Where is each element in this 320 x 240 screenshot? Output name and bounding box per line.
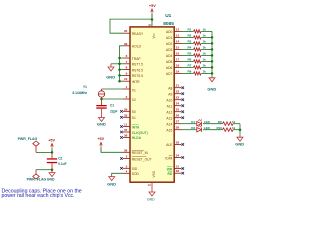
- svg-text:INTA: INTA: [132, 125, 140, 129]
- svg-text:1: 1: [126, 85, 128, 89]
- svg-text:X2: X2: [132, 98, 136, 102]
- svg-text:SOD: SOD: [132, 172, 140, 176]
- svg-text:9: 9: [126, 71, 128, 75]
- svg-text:PWR_FLAG: PWR_FLAG: [27, 177, 47, 181]
- svg-text:GND: GND: [97, 122, 106, 127]
- svg-text:+5V: +5V: [149, 4, 156, 8]
- svg-text:A12: A12: [166, 111, 172, 115]
- svg-text:A8: A8: [168, 87, 172, 91]
- svg-text:IO/M: IO/M: [165, 156, 172, 160]
- svg-text:AD0: AD0: [166, 30, 173, 34]
- svg-text:Y1: Y1: [83, 85, 87, 89]
- svg-text:27: 27: [176, 120, 180, 124]
- svg-text:LED: LED: [204, 126, 211, 130]
- svg-text:GND: GND: [207, 86, 216, 91]
- svg-text:RST5.5: RST5.5: [132, 74, 143, 78]
- svg-text:8: 8: [126, 66, 128, 70]
- svg-text:R7: R7: [188, 64, 192, 68]
- svg-text:33: 33: [124, 113, 128, 117]
- svg-text:SID: SID: [132, 167, 138, 171]
- svg-text:C2: C2: [58, 157, 62, 161]
- svg-text:A9: A9: [168, 93, 172, 97]
- svg-text:6.144MHz: 6.144MHz: [73, 91, 88, 95]
- svg-text:HLDA: HLDA: [132, 136, 142, 140]
- svg-text:AD5: AD5: [166, 60, 173, 64]
- svg-text:22pF: 22pF: [110, 109, 117, 113]
- svg-text:39: 39: [124, 42, 128, 46]
- svg-text:15: 15: [176, 45, 180, 49]
- svg-text:VSS: VSS: [152, 171, 156, 177]
- svg-text:LED: LED: [204, 120, 211, 124]
- svg-text:A13: A13: [166, 117, 172, 121]
- svg-text:1k: 1k: [203, 58, 207, 62]
- svg-text:AD4: AD4: [166, 54, 173, 58]
- svg-text:4: 4: [126, 169, 128, 173]
- svg-text:3: 3: [126, 155, 128, 159]
- svg-text:A15: A15: [166, 129, 172, 133]
- svg-text:+5V: +5V: [97, 137, 104, 141]
- svg-text:11: 11: [124, 123, 128, 127]
- svg-text:1k: 1k: [203, 28, 207, 32]
- svg-text:GND: GND: [47, 177, 55, 181]
- svg-text:RD: RD: [168, 172, 173, 176]
- svg-text:AD6: AD6: [166, 66, 173, 70]
- svg-text:26: 26: [176, 114, 180, 118]
- svg-text:30: 30: [176, 140, 180, 144]
- svg-text:1k: 1k: [232, 120, 236, 124]
- svg-text:1k: 1k: [203, 52, 207, 56]
- svg-text:AD1: AD1: [166, 36, 173, 40]
- svg-text:+5V: +5V: [48, 138, 55, 142]
- svg-text:24: 24: [176, 102, 180, 106]
- svg-text:RESET_OUT: RESET_OUT: [132, 157, 152, 161]
- svg-text:AD2: AD2: [166, 42, 173, 46]
- svg-text:A11: A11: [167, 105, 173, 109]
- svg-text:R4: R4: [188, 46, 192, 50]
- svg-text:38: 38: [124, 133, 128, 137]
- svg-text:WR: WR: [167, 167, 173, 171]
- svg-text:R2: R2: [188, 34, 192, 38]
- svg-text:8085: 8085: [163, 21, 174, 27]
- svg-text:AD7: AD7: [166, 72, 173, 76]
- svg-text:R3: R3: [188, 40, 192, 44]
- svg-text:power rail near each chip's Vc: power rail near each chip's Vcc.: [2, 193, 75, 199]
- svg-text:2: 2: [126, 95, 128, 99]
- svg-text:0.1uF: 0.1uF: [58, 162, 66, 166]
- svg-text:D1: D1: [191, 120, 195, 124]
- svg-text:21: 21: [176, 84, 180, 88]
- svg-text:D2: D2: [191, 126, 195, 130]
- svg-text:GND: GND: [107, 182, 116, 187]
- svg-text:1k: 1k: [203, 40, 207, 44]
- svg-text:13: 13: [176, 33, 180, 37]
- svg-text:Vcc: Vcc: [152, 33, 156, 39]
- svg-text:S1: S1: [132, 116, 136, 120]
- svg-text:5: 5: [126, 164, 128, 168]
- svg-text:1k: 1k: [203, 46, 207, 50]
- svg-text:19: 19: [176, 69, 180, 73]
- svg-text:1k: 1k: [232, 126, 236, 130]
- svg-text:INTR: INTR: [132, 80, 140, 84]
- svg-text:CLK(OUT): CLK(OUT): [132, 131, 148, 135]
- svg-text:R6: R6: [188, 58, 192, 62]
- svg-text:6: 6: [126, 54, 128, 58]
- svg-text:37: 37: [124, 128, 128, 132]
- svg-text:1k: 1k: [203, 64, 207, 68]
- svg-text:S0: S0: [132, 110, 136, 114]
- svg-text:20: 20: [148, 183, 152, 187]
- svg-text:R9: R9: [218, 120, 222, 124]
- svg-text:25: 25: [176, 108, 180, 112]
- svg-text:1k: 1k: [203, 70, 207, 74]
- svg-text:40: 40: [148, 23, 152, 27]
- svg-text:29: 29: [124, 107, 128, 111]
- svg-text:A14: A14: [166, 123, 172, 127]
- svg-text:17: 17: [176, 57, 180, 61]
- svg-text:10: 10: [124, 77, 128, 81]
- svg-text:28: 28: [176, 126, 180, 130]
- svg-text:1k: 1k: [203, 34, 207, 38]
- svg-text:32: 32: [176, 169, 180, 173]
- svg-text:RST7.5: RST7.5: [132, 63, 143, 67]
- svg-text:22: 22: [176, 90, 180, 94]
- svg-text:TRAP: TRAP: [132, 57, 142, 61]
- svg-text:PWR_FLAG: PWR_FLAG: [18, 137, 38, 141]
- svg-text:A10: A10: [166, 99, 172, 103]
- svg-text:GND: GND: [235, 142, 244, 147]
- svg-text:ALE: ALE: [166, 143, 173, 147]
- svg-text:X1: X1: [132, 88, 136, 92]
- svg-text:R5: R5: [188, 52, 192, 56]
- svg-text:GND: GND: [147, 198, 155, 202]
- svg-text:RST6.5: RST6.5: [132, 68, 143, 72]
- svg-text:12: 12: [176, 27, 180, 31]
- svg-text:READY: READY: [132, 32, 144, 36]
- svg-text:7: 7: [126, 60, 128, 64]
- svg-text:R8: R8: [188, 70, 192, 74]
- svg-text:R1: R1: [188, 28, 192, 32]
- svg-text:14: 14: [176, 39, 180, 43]
- svg-text:C1: C1: [110, 104, 114, 108]
- svg-text:36: 36: [124, 148, 128, 152]
- svg-text:34: 34: [176, 154, 180, 158]
- svg-text:U1: U1: [165, 13, 171, 19]
- svg-text:RESET_IN: RESET_IN: [132, 151, 149, 155]
- svg-text:GND: GND: [106, 74, 115, 79]
- svg-text:23: 23: [176, 96, 180, 100]
- svg-text:16: 16: [176, 51, 180, 55]
- svg-text:AD3: AD3: [166, 48, 173, 52]
- svg-text:35: 35: [124, 29, 128, 33]
- svg-text:HOLD: HOLD: [132, 45, 142, 49]
- svg-text:18: 18: [176, 63, 180, 67]
- svg-text:31: 31: [176, 165, 180, 169]
- svg-text:R10: R10: [217, 126, 223, 130]
